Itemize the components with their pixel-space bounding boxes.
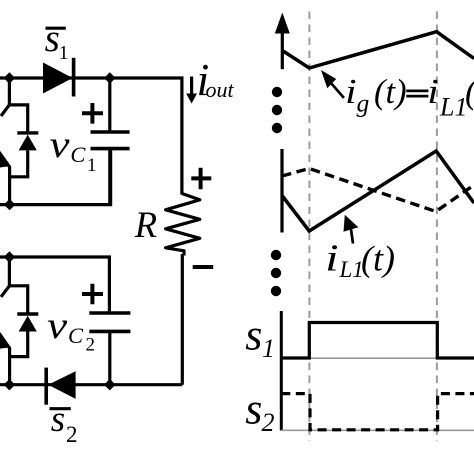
- wire bottom rail cell 2: [0, 383, 182, 386]
- transistor Q1 emitter lead: [0, 152, 10, 205]
- svg-text:s: s: [245, 385, 262, 434]
- axis s1 s2: [280, 311, 283, 431]
- waveform axis panel 2: [280, 149, 283, 233]
- annotation arrow 2: [351, 228, 353, 244]
- svg-text:C: C: [68, 323, 84, 348]
- waveform iL2(t) dashed: [282, 169, 474, 212]
- diode S2bar cathode bar: [44, 368, 48, 405]
- gridline t1: [308, 12, 310, 442]
- svg-text:i: i: [325, 237, 339, 279]
- svg-text:2: 2: [66, 422, 78, 447]
- svg-text:s: s: [45, 17, 60, 60]
- svg-text:g: g: [357, 89, 370, 118]
- capacitor C2 bottom plate: [89, 330, 130, 334]
- svg-text:1: 1: [59, 43, 69, 64]
- node junction B (110,78): [104, 72, 115, 83]
- wire top rail cell 2: [0, 257, 109, 312]
- diode D2 triangle: [19, 316, 37, 332]
- wire capacitor C1 bottom lead: [108, 149, 111, 205]
- node junction C (9.6,204.6): [4, 199, 15, 210]
- svg-text:L1: L1: [439, 93, 467, 122]
- svg-text:(t): (t): [374, 73, 407, 111]
- node junction A (9,78): [4, 72, 15, 83]
- diode S1bar triangle: [44, 63, 72, 92]
- diode S1bar cathode bar: [72, 58, 76, 97]
- waveform iL1(t) solid: [282, 151, 474, 231]
- dots group 2: [271, 250, 281, 260]
- transistor Q2 emitter lead: [0, 333, 10, 385]
- gridline t2: [436, 12, 438, 442]
- plus sign capacitor C2: [82, 284, 103, 305]
- minus sign load: [193, 265, 214, 269]
- diode S2bar triangle: [48, 371, 75, 399]
- node junction D (9.4,257): [4, 251, 15, 262]
- svg-text:1: 1: [87, 155, 97, 176]
- waveform axis arrow panel 1: [281, 28, 284, 69]
- label s1bar overbar: [46, 27, 66, 30]
- svg-text:s: s: [245, 311, 262, 360]
- arrow i_out: [190, 77, 193, 97]
- svg-text:i: i: [427, 72, 439, 111]
- wire diode D1 top stub: [9, 105, 27, 132]
- annotation arrow 1: [331, 83, 344, 98]
- baseline s2: [281, 429, 474, 431]
- waveform s1: [281, 323, 474, 359]
- wire capacitor C2 bottom lead: [108, 331, 111, 384]
- svg-text:L1: L1: [339, 257, 364, 282]
- wire resistor bottom lead: [181, 254, 184, 385]
- plus sign capacitor C1: [82, 103, 103, 124]
- wire diode D2 top stub: [9, 286, 27, 313]
- svg-text:R: R: [134, 204, 157, 245]
- waveform ig(t): [282, 32, 474, 68]
- svg-text:2: 2: [262, 408, 275, 437]
- waveform s2 dashed: [281, 394, 474, 430]
- svg-text:v: v: [47, 305, 67, 347]
- svg-text:(: (: [465, 72, 474, 111]
- transistor Q2 emitter arrow: [0, 334, 9, 349]
- diode D1 triangle: [19, 135, 37, 151]
- label s2bar overbar: [50, 407, 71, 410]
- wire diode D2 bottom stub: [10, 332, 28, 357]
- svg-text:1: 1: [262, 334, 275, 363]
- node junction F (109.8,384.7): [104, 379, 115, 390]
- transistor Q1 collector lead: [1, 78, 9, 116]
- wire bottom rail cell 1: [0, 149, 111, 205]
- wire top rail cell 1: [0, 78, 182, 195]
- diode D1 cathode bar: [17, 131, 38, 134]
- capacitor C1 top plate: [91, 130, 130, 134]
- svg-text:i: i: [345, 72, 357, 111]
- transistor Q1 emitter arrow: [0, 153, 9, 168]
- plus sign load: [191, 168, 211, 189]
- wire capacitor C1 top lead: [108, 78, 111, 131]
- diode D2 cathode bar: [17, 312, 38, 315]
- svg-text:(t): (t): [361, 239, 395, 279]
- node junction E (9.4,384.7): [4, 379, 15, 390]
- resistor R zigzag: [166, 194, 200, 256]
- transistor Q2 collector lead: [1, 257, 9, 297]
- capacitor C1 bottom plate: [91, 147, 130, 151]
- capacitor C2 top plate: [89, 311, 130, 315]
- svg-text:C: C: [70, 142, 86, 167]
- svg-text:v: v: [50, 124, 70, 166]
- wire diode D1 bottom stub: [10, 150, 28, 176]
- baseline s1: [281, 357, 474, 359]
- svg-text:2: 2: [86, 335, 96, 356]
- svg-text:out: out: [206, 77, 235, 102]
- dots group 1: [272, 87, 282, 97]
- svg-text:s: s: [51, 399, 65, 440]
